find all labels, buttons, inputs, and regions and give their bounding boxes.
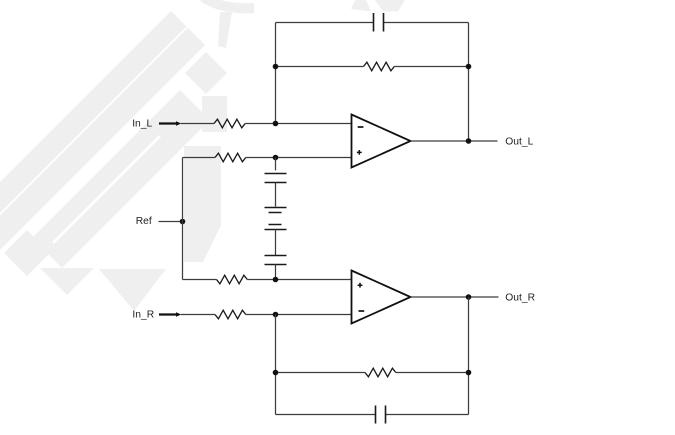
junction dot: Out_L node — [466, 138, 472, 144]
svg-text:In_R: In_R — [132, 310, 154, 321]
wire: U2 non-inverting row horizontal — [183, 279, 352, 281]
junction dot: U2 inverting input node — [273, 312, 279, 318]
resistor (bottom feedback R) — [365, 368, 396, 377]
junction dot: Ref node — [180, 219, 186, 225]
resistor (U1 non-inverting input R from Ref) — [215, 153, 246, 162]
wire: In_R port to series resistor — [181, 314, 215, 316]
background watermark logo — [0, 0, 405, 311]
wire: bottom R feedback branch horizontal — [276, 372, 469, 374]
junction dot: U1 inverting input node — [273, 121, 279, 127]
wire: right vertical of top feedback loop — [468, 23, 470, 142]
wire: bottom C feedback branch horizontal — [276, 414, 469, 416]
wire: left vertical of top feedback loop — [275, 23, 277, 124]
wire: right vertical of bottom feedback loop — [468, 297, 470, 415]
wire: U2 output to Out_R — [411, 296, 499, 298]
capacitor (top feedback C, between U1 inverting node and Out_L node) — [374, 13, 384, 32]
junction dot: top R branch right — [466, 64, 472, 70]
resistor (In_L series R) — [214, 119, 245, 128]
capacitor (right channel input filter C to reference) — [265, 256, 287, 265]
junction dot: U1 non-inverting node — [273, 155, 279, 161]
junction dot: Out_R node — [466, 294, 472, 300]
wire: cap up to U2 non-inverting node — [275, 265, 277, 280]
junction dot: bottom R branch right — [466, 370, 472, 376]
svg-text:Out_L: Out_L — [505, 137, 533, 148]
svg-text:Ref: Ref — [136, 216, 152, 227]
resistor (In_R series R) — [215, 310, 246, 319]
capacitor (left channel input filter C to reference) — [265, 174, 287, 183]
op-amp U2 (right channel) — [352, 271, 411, 324]
wire: left vertical of bottom feedback loop — [275, 315, 277, 415]
wire: Ref stub — [159, 221, 183, 223]
resistor (top feedback R) — [364, 62, 395, 71]
op-amp U1 (left channel) — [352, 115, 411, 168]
junction dot: U2 non-inverting node — [273, 277, 279, 283]
reference ground symbol (lower, pointing up) — [265, 225, 287, 230]
resistor (U2 non-inverting input R from Ref) — [217, 275, 248, 284]
junction dot: top R branch left — [273, 64, 279, 70]
U1 inverting input minus sign — [358, 126, 364, 128]
junction dot: bottom R branch left — [273, 370, 279, 376]
wire: resistor to U1 inverting input — [245, 123, 351, 125]
svg-text:Out_R: Out_R — [505, 292, 535, 303]
port stub arrow In_R — [159, 312, 181, 317]
wire: In_L port to series resistor — [181, 123, 214, 125]
U2 non-inverting input plus sign — [358, 283, 363, 288]
port stub arrow In_L — [159, 121, 181, 126]
wire: U1 output to Out_L — [411, 140, 498, 142]
wire: top C feedback branch horizontal — [276, 22, 469, 24]
svg-text:In_L: In_L — [132, 118, 152, 129]
wire: resistor to U2 inverting input — [246, 314, 352, 316]
wire: lower reference ground to right-channel cap — [275, 230, 277, 256]
wire: top R feedback branch horizontal — [276, 66, 469, 68]
wire: U1 non-inverting row horizontal — [183, 157, 352, 159]
wire: U1 non-inverting node down to left-channel cap — [275, 158, 277, 171]
reference ground symbol (upper, pointing down) — [265, 208, 287, 213]
U2 inverting input minus sign — [359, 310, 365, 312]
capacitor (bottom feedback C) — [376, 406, 386, 424]
wire: left vertical Ref rail — [182, 158, 184, 280]
wire: cap to upper reference ground — [275, 183, 277, 207]
U1 non-inverting input plus sign — [357, 150, 362, 155]
